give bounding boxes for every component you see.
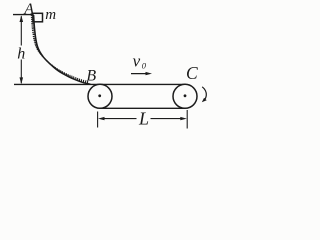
svg-text:m: m bbox=[45, 7, 56, 23]
block m bbox=[33, 13, 43, 21]
L dimension right tick bbox=[186, 110, 188, 129]
ramp hatching bbox=[31, 15, 88, 84]
left pulley B bbox=[88, 84, 112, 108]
svg-text:L: L bbox=[138, 109, 149, 129]
svg-text:0: 0 bbox=[142, 61, 147, 71]
rotation arrow at pulley C bbox=[202, 87, 206, 101]
L dimension line right segment with arrow bbox=[151, 118, 184, 120]
ground / belt top line bbox=[14, 83, 186, 85]
platform line at A bbox=[13, 14, 33, 16]
right pulley axle dot bbox=[184, 94, 187, 97]
h dimension line (upper segment with up arrow) bbox=[20, 16, 22, 45]
L dimension line left segment with arrow bbox=[102, 118, 137, 120]
svg-text:C: C bbox=[186, 63, 198, 83]
svg-text:v: v bbox=[133, 52, 141, 71]
belt velocity arrow bbox=[131, 73, 148, 75]
belt bottom line bbox=[100, 107, 185, 109]
left pulley axle dot bbox=[98, 94, 101, 97]
h dimension line (lower segment with down arrow) bbox=[20, 60, 22, 84]
curved ramp surface bbox=[34, 15, 91, 84]
L dimension left tick bbox=[97, 112, 99, 128]
right pulley C bbox=[173, 84, 197, 108]
svg-text:B: B bbox=[86, 68, 96, 85]
